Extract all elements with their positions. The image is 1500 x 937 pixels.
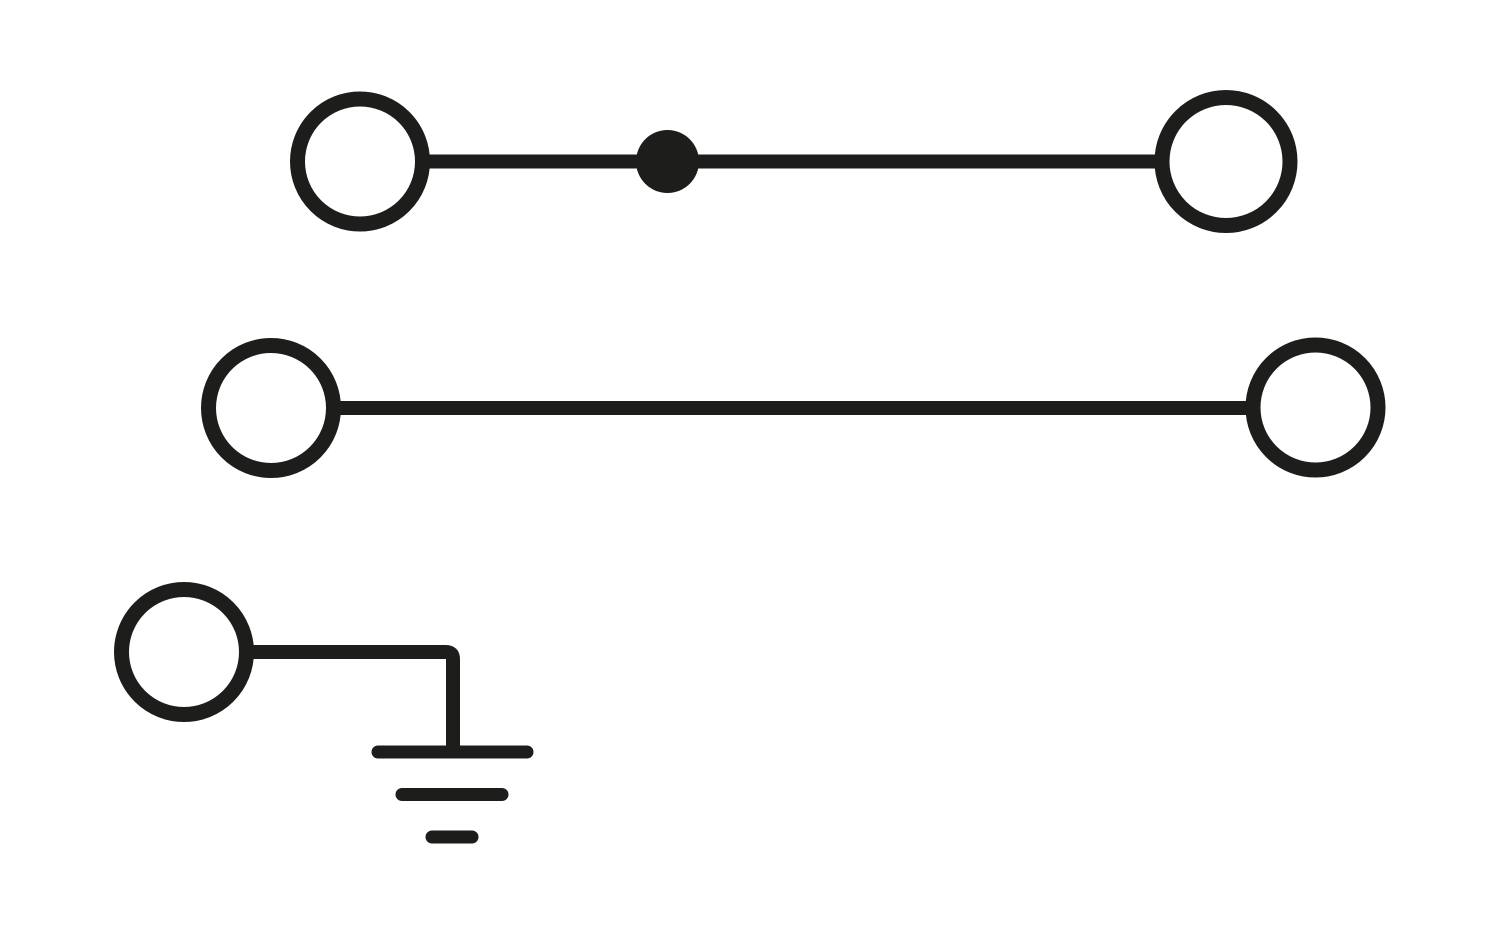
terminal circle 2.2 (row 2 right) — [1253, 345, 1378, 470]
wire row 2 — [334, 401, 1254, 415]
ground — [378, 752, 527, 837]
junction dot row 1 — [636, 130, 699, 193]
terminal circle 1.1 (row 1 left) — [298, 99, 423, 224]
wire row 3 with corner down to ground — [247, 652, 454, 752]
terminal circle 1.2 (row 1 right) — [1162, 98, 1290, 226]
wire row 1 — [422, 155, 1164, 169]
terminal circle 3.1 (row 3 left) — [122, 590, 247, 715]
terminal circle 2.1 (row 2 left) — [209, 346, 334, 471]
